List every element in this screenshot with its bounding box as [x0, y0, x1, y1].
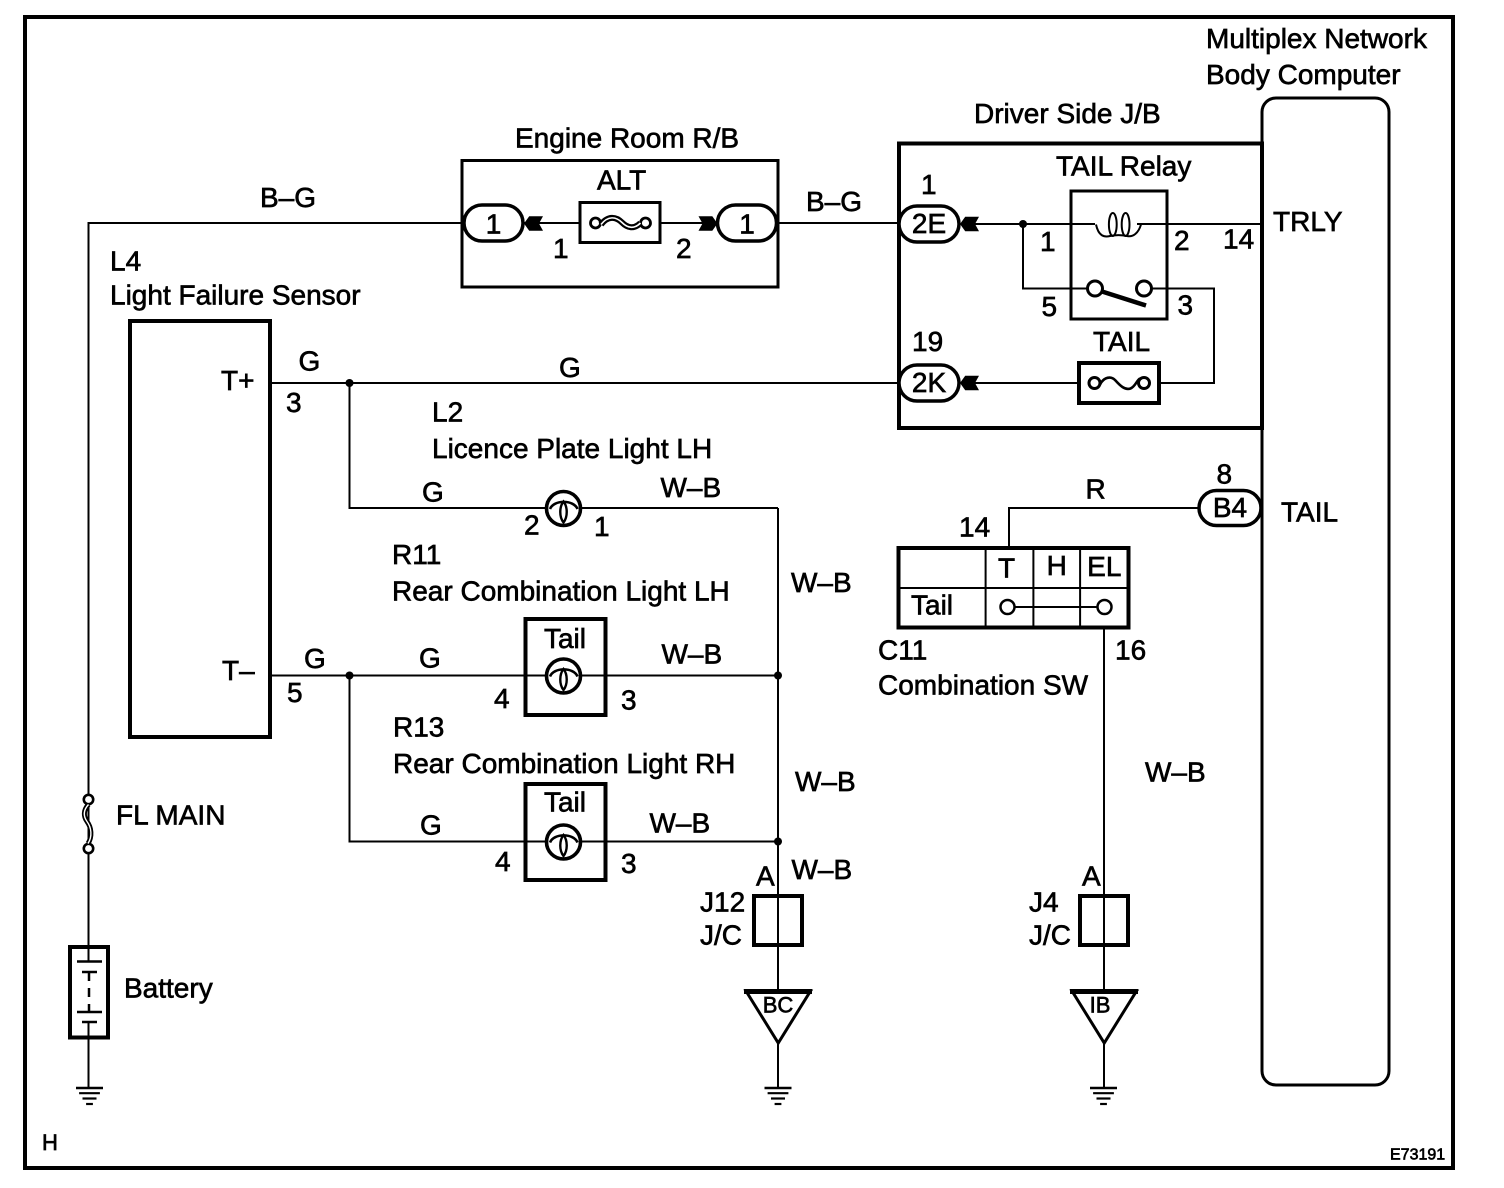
- junction dot R11/vertical: [774, 672, 782, 680]
- connector oval 1 (left): [464, 205, 523, 241]
- L4 light failure sensor box: [130, 321, 270, 737]
- svg-text:J/C: J/C: [700, 920, 742, 951]
- svg-text:B4: B4: [1213, 492, 1247, 523]
- junction dot T+: [346, 379, 354, 387]
- junction block J12: [754, 896, 802, 945]
- svg-text:G: G: [420, 810, 442, 841]
- wire B4 to combination SW: [1009, 508, 1199, 548]
- wire 2E to relay coil: [962, 223, 1095, 225]
- svg-text:Driver Side J/B: Driver Side J/B: [974, 98, 1161, 129]
- svg-text:Body Computer: Body Computer: [1206, 59, 1401, 90]
- wire through R13 box: [526, 841, 606, 843]
- svg-text:T: T: [998, 553, 1015, 584]
- arrow into 2E: [960, 217, 979, 232]
- wire BC to ground: [777, 1043, 779, 1087]
- wire IB to ground: [1103, 1043, 1105, 1087]
- body computer box (rounded): [1262, 98, 1389, 1085]
- svg-text:J/C: J/C: [1029, 920, 1071, 951]
- svg-text:EL: EL: [1087, 551, 1121, 582]
- engine room R/B box: [462, 161, 778, 288]
- svg-text:Licence Plate Light LH: Licence Plate Light LH: [432, 433, 712, 464]
- svg-text:R13: R13: [393, 712, 444, 743]
- relay switch blade: [1102, 292, 1146, 306]
- wire junction down to R13: [350, 676, 779, 842]
- tail lamp box R13: [526, 784, 606, 880]
- vertical W-B wire to J12: [777, 508, 779, 991]
- connector oval 2E: [899, 206, 959, 242]
- svg-text:14: 14: [1223, 224, 1254, 255]
- TAIL fuse symbol: [1089, 378, 1100, 389]
- svg-text:B–G: B–G: [806, 186, 862, 217]
- fuse ALT symbol: [591, 218, 601, 228]
- wire relay coil to body computer TRLY: [1137, 223, 1262, 225]
- svg-text:W–B: W–B: [661, 472, 722, 503]
- connector oval 1 (right): [718, 205, 777, 241]
- svg-text:2: 2: [524, 510, 540, 541]
- svg-text:3: 3: [621, 685, 637, 716]
- svg-text:Rear Combination Light RH: Rear Combination Light RH: [393, 748, 735, 779]
- ground shield triangle IB: [1070, 989, 1138, 994]
- svg-text:J12: J12: [700, 887, 745, 918]
- svg-text:ALT: ALT: [597, 165, 646, 196]
- svg-text:2: 2: [676, 233, 692, 264]
- wire EL to J4: [1103, 628, 1105, 992]
- svg-text:1: 1: [921, 169, 937, 200]
- svg-text:W–B: W–B: [662, 639, 723, 670]
- ground (IB): [1090, 1087, 1117, 1089]
- svg-text:Rear Combination Light LH: Rear Combination Light LH: [392, 576, 730, 607]
- svg-text:TAIL: TAIL: [1281, 497, 1338, 528]
- svg-text:L2: L2: [432, 397, 463, 428]
- svg-text:H: H: [42, 1130, 58, 1155]
- svg-text:B–G: B–G: [260, 182, 316, 213]
- svg-text:L4: L4: [110, 246, 141, 277]
- connector oval 2K: [899, 365, 959, 401]
- fuse ALT box: [580, 203, 660, 243]
- fusible link FL MAIN: [84, 795, 93, 804]
- connector oval B4: [1199, 491, 1261, 526]
- ground (BC): [765, 1087, 792, 1089]
- svg-text:A: A: [756, 861, 775, 892]
- junction block J4: [1080, 896, 1128, 945]
- svg-text:5: 5: [287, 677, 303, 708]
- svg-text:1: 1: [553, 233, 569, 264]
- svg-text:2: 2: [1174, 225, 1190, 256]
- combination switch table C11: [899, 548, 1129, 628]
- TAIL relay box: [1071, 191, 1167, 319]
- svg-text:1: 1: [486, 209, 502, 240]
- svg-text:R: R: [1086, 474, 1106, 505]
- svg-text:C11: C11: [878, 635, 927, 666]
- driver side J/B box: [899, 144, 1262, 429]
- wire B-G battery to engine room: [89, 223, 467, 945]
- wire through R11 box: [526, 675, 606, 677]
- svg-text:A: A: [1082, 861, 1101, 892]
- svg-text:2E: 2E: [912, 208, 946, 239]
- svg-text:4: 4: [494, 683, 510, 714]
- battery plates: [88, 947, 90, 962]
- svg-text:Tail: Tail: [544, 623, 586, 654]
- svg-text:4: 4: [495, 846, 511, 877]
- svg-text:E73191: E73191: [1390, 1147, 1445, 1164]
- svg-text:14: 14: [959, 512, 990, 543]
- svg-text:16: 16: [1115, 635, 1146, 666]
- arrow into 2K: [960, 376, 979, 391]
- junction dot: [1019, 220, 1027, 228]
- switch contact circle EL: [1098, 600, 1112, 614]
- svg-text:BC: BC: [763, 993, 794, 1018]
- svg-text:1: 1: [1040, 226, 1056, 257]
- svg-text:R11: R11: [392, 539, 441, 570]
- switch contact line: [1015, 606, 1098, 608]
- svg-text:G: G: [422, 477, 444, 508]
- svg-text:TAIL Relay: TAIL Relay: [1056, 151, 1191, 182]
- wire junction down to L2: [350, 383, 779, 508]
- svg-text:Tail: Tail: [544, 787, 586, 818]
- svg-text:G: G: [304, 643, 326, 674]
- svg-text:3: 3: [1178, 290, 1194, 321]
- wire junction to relay pin 5: [1023, 224, 1071, 289]
- wire 2K to TAIL fuse: [962, 382, 1079, 384]
- bulb R13 tail: [547, 825, 581, 859]
- svg-text:Light Failure Sensor: Light Failure Sensor: [110, 280, 361, 311]
- svg-text:FL MAIN: FL MAIN: [116, 800, 225, 831]
- svg-text:Multiplex Network: Multiplex Network: [1206, 23, 1428, 54]
- svg-text:3: 3: [621, 848, 637, 879]
- bulb L2 licence plate light: [547, 492, 581, 526]
- relay switch contacts: [1071, 288, 1087, 290]
- junction dot R13/vertical: [774, 838, 782, 846]
- wire T+ to 2K (G): [272, 382, 899, 384]
- svg-text:T+: T+: [221, 365, 254, 396]
- arrow into left oval: [524, 216, 543, 231]
- svg-text:3: 3: [286, 387, 302, 418]
- svg-text:J4: J4: [1029, 887, 1059, 918]
- junction dot T-: [346, 672, 354, 680]
- wire T- to R11: [272, 675, 778, 677]
- svg-text:5: 5: [1042, 291, 1058, 322]
- svg-text:G: G: [299, 346, 321, 377]
- bulb R11 tail: [547, 659, 581, 693]
- svg-text:T–: T–: [222, 655, 255, 686]
- svg-text:1: 1: [739, 209, 755, 240]
- svg-text:19: 19: [912, 326, 943, 357]
- tail lamp box R11: [526, 619, 606, 715]
- TAIL fuse box: [1079, 363, 1159, 403]
- svg-text:Tail: Tail: [911, 590, 953, 621]
- svg-text:Battery: Battery: [124, 973, 213, 1004]
- svg-text:Engine Room R/B: Engine Room R/B: [515, 123, 739, 154]
- svg-text:H: H: [1047, 550, 1067, 581]
- svg-text:W–B: W–B: [791, 567, 852, 598]
- svg-text:W–B: W–B: [1145, 757, 1206, 788]
- wire inside engine room box: [523, 222, 717, 224]
- ground (battery): [76, 1087, 103, 1089]
- wire B-G engine room to 2E: [777, 222, 900, 224]
- wire relay pin 3 to TAIL fuse: [1159, 289, 1214, 384]
- svg-text:G: G: [419, 643, 441, 674]
- relay coil: [1096, 225, 1141, 237]
- svg-text:8: 8: [1217, 459, 1233, 490]
- svg-text:1: 1: [594, 511, 610, 542]
- switch contact circle T: [1001, 600, 1015, 614]
- svg-text:W–B: W–B: [795, 766, 856, 797]
- arrow into right oval: [699, 216, 718, 231]
- svg-text:TAIL: TAIL: [1093, 326, 1150, 357]
- svg-text:TRLY: TRLY: [1273, 206, 1343, 237]
- svg-text:IB: IB: [1090, 993, 1111, 1018]
- battery box: [70, 947, 108, 1038]
- svg-text:W–B: W–B: [792, 854, 853, 885]
- svg-text:Combination SW: Combination SW: [878, 670, 1089, 701]
- svg-text:W–B: W–B: [650, 808, 711, 839]
- svg-text:G: G: [559, 352, 581, 383]
- svg-text:2K: 2K: [912, 367, 947, 398]
- ground shield triangle BC: [744, 989, 812, 994]
